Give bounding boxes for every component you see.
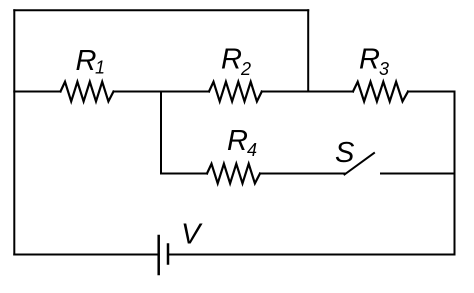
- wire switch to right vertical: [381, 173, 455, 175]
- label R1: [76, 45, 106, 78]
- wire branch to R4: [161, 173, 207, 175]
- wire branch vertical (middle node to R4 branch): [160, 92, 162, 174]
- resistor R2: [209, 82, 262, 102]
- wire bottom left of battery: [14, 254, 158, 256]
- svg-text:R: R: [359, 44, 380, 76]
- svg-text:S: S: [335, 137, 355, 169]
- wire R3 to right vertical: [408, 91, 455, 93]
- label R4: [227, 125, 257, 160]
- wire drop from top to middle node: [307, 10, 309, 91]
- wire bottom right of battery: [168, 254, 455, 256]
- battery V short plate: [167, 245, 170, 264]
- wire top horizontal: [14, 9, 308, 11]
- battery V long plate: [157, 236, 160, 274]
- label R2: [221, 44, 251, 80]
- wire right vertical: [454, 92, 456, 255]
- wire R4 to switch: [260, 173, 345, 175]
- svg-text:2: 2: [240, 59, 251, 79]
- svg-text:V: V: [181, 219, 203, 251]
- svg-text:4: 4: [247, 140, 257, 160]
- resistor R3: [353, 82, 408, 102]
- wire between R2 and R3: [262, 91, 353, 93]
- wire between R1 and R2: [114, 91, 210, 93]
- resistor R4: [207, 164, 260, 184]
- label R3: [359, 44, 389, 80]
- wire left vertical: [13, 10, 15, 254]
- svg-text:R: R: [76, 45, 97, 77]
- wire middle left segment: [14, 91, 60, 93]
- svg-text:3: 3: [379, 59, 389, 79]
- svg-text:1: 1: [95, 58, 105, 78]
- switch S arm: [345, 153, 375, 175]
- svg-text:R: R: [221, 44, 242, 76]
- resistor R1: [61, 82, 114, 102]
- svg-text:R: R: [227, 125, 248, 157]
